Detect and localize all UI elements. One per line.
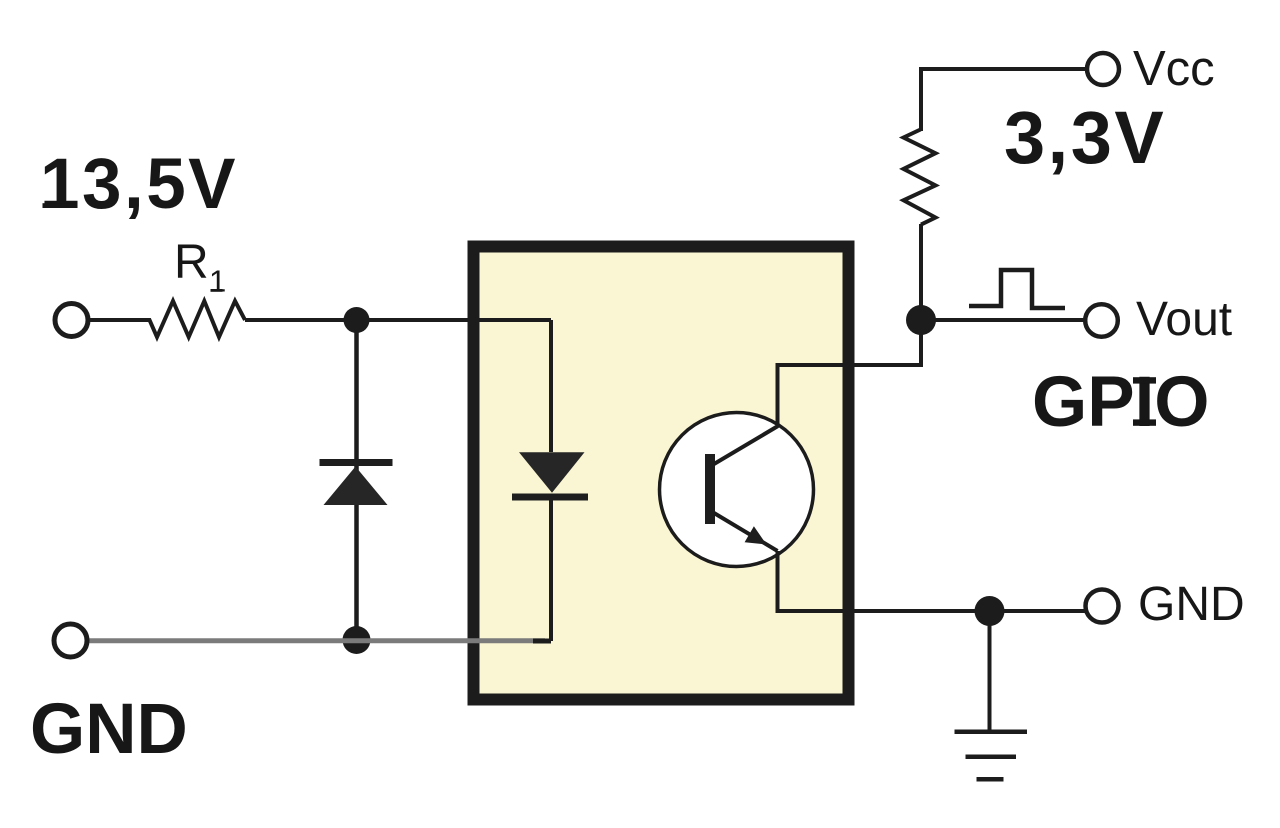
transistor Q1 emitter arrowhead [745,526,767,544]
ground symbol [955,732,1028,780]
svg-text:13,5V: 13,5V [40,145,238,224]
terminal input 13,5V [55,304,88,337]
resistor R1 [89,301,245,337]
diode D1 reverse-protection [320,459,393,505]
wire node D to ground symbol [988,611,992,731]
wire collector to node C [778,324,922,426]
node D junction [975,596,1005,626]
pulse symbol [969,270,1065,308]
svg-text:GND: GND [30,690,188,769]
svg-text:GPIO: GPIO [1032,363,1210,442]
svg-text:1: 1 [209,264,226,299]
optocoupler body U1 [474,247,849,700]
LED D2 inside optocoupler [512,452,588,500]
wire node C to Vout [921,318,1086,322]
wire LED cathode stub [533,639,551,644]
wire GND bottom (gray) [88,638,545,643]
wire node A down to node B [354,320,359,640]
svg-text:3,3V: 3,3V [1004,96,1166,179]
transistor Q1 circle [660,413,814,567]
wire emitter to GND right [778,551,1087,611]
transistor Q1 emitter stroke [714,513,778,551]
terminal GND right [1086,590,1119,623]
node C junction [906,305,936,335]
svg-text:R: R [174,236,209,289]
transistor Q1 base bar [705,454,715,524]
wire Vcc to resistor R2 [921,69,1086,131]
terminal GND left [54,624,87,657]
resistor R2 pull-up [904,130,936,225]
label R1 [174,236,226,299]
svg-text:Vcc: Vcc [1133,42,1215,96]
wire LED cathode vertical [549,500,553,641]
label 13,5V [40,145,238,224]
node B junction [343,626,371,654]
terminal Vcc [1087,53,1119,85]
terminal Vout [1085,304,1118,337]
node A junction [344,307,370,333]
wire LED anode vertical [549,320,553,452]
wire resistor R2 to node C [919,224,923,320]
svg-text:Vout: Vout [1136,293,1232,346]
label GPIO [1032,363,1210,442]
wire resistor to LED anode [245,318,551,322]
svg-text:GND: GND [1138,578,1245,631]
transistor Q1 collector stroke [714,426,778,464]
